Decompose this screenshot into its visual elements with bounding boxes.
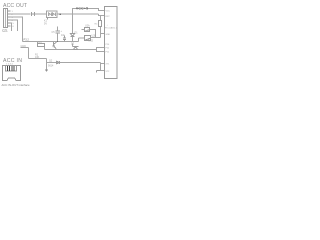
svg-text:U2A: U2A <box>85 25 90 28</box>
svg-text:P0.0/AD0.0: P0.0/AD0.0 <box>105 27 118 30</box>
relay K1 box <box>47 11 58 18</box>
mid rail link to U2B <box>79 38 85 42</box>
crystal Y1 <box>97 71 101 73</box>
junction node A <box>59 13 61 15</box>
wire U2A input stub <box>82 29 85 31</box>
wire rail into U1 pins <box>97 48 105 52</box>
mid rail wire left <box>23 41 79 43</box>
wire pin4 stub down <box>11 20 18 31</box>
diode D2 on rail <box>73 47 79 50</box>
resistor R4 vertical <box>100 16 102 38</box>
svg-text:GND: GND <box>106 34 111 36</box>
svg-text:U2B: U2B <box>92 35 97 38</box>
junction cap to rail <box>57 41 58 42</box>
long rail wire <box>38 42 97 50</box>
wire branch up to VCC rail <box>73 9 105 15</box>
link D1 to rail <box>72 44 74 47</box>
connector J1 pin stubs <box>8 11 11 26</box>
wire relay output <box>58 13 99 15</box>
svg-text:CZ1: CZ1 <box>2 29 8 33</box>
buffer U2A <box>85 28 90 32</box>
wire U2A output <box>90 30 96 38</box>
wire jog down to long rail <box>28 48 30 59</box>
RJ jack J2 body <box>3 66 21 81</box>
transistor Q2 emitter to ground <box>46 63 48 70</box>
resistor R4 body <box>99 21 102 27</box>
relay K1 internal diodes <box>49 13 56 16</box>
svg-text:GND: GND <box>21 45 27 48</box>
capacitor C6 <box>63 36 66 42</box>
wire crystal to U1 XTAL pins <box>101 63 105 71</box>
IC U1 box <box>105 7 118 79</box>
transistor Q1 <box>54 42 57 50</box>
pin numbers J1 <box>12 11 15 28</box>
capacitor C5 vertical wire <box>57 27 59 42</box>
ground arrow <box>45 70 48 73</box>
connector J1 body <box>4 9 8 28</box>
RJ jack pin bars <box>7 66 14 71</box>
GND stub wire <box>21 47 29 49</box>
svg-text:5V: 5V <box>44 23 47 26</box>
wire crystal net <box>47 62 101 64</box>
diode D3 in rail jog <box>38 44 45 47</box>
wire base junction <box>46 59 48 63</box>
diode D1 symbol <box>71 34 75 37</box>
RJ jack pin block <box>6 66 17 72</box>
wire stub into U1 GND pin <box>101 33 105 35</box>
wire net VCC from pin2 to fuse <box>11 13 31 15</box>
wire U2B output to U1 <box>91 37 101 39</box>
svg-text:P3.2: P3.2 <box>24 37 30 41</box>
svg-text:RXD: RXD <box>88 40 93 43</box>
capacitor C5 plates <box>56 31 61 33</box>
wire net from pin3 down to mid rail <box>11 17 23 42</box>
IC U1 pin labels <box>105 11 118 74</box>
background <box>0 0 120 90</box>
svg-text:10u: 10u <box>61 34 66 37</box>
diode D1 vertical wire <box>72 14 74 42</box>
svg-text:VCC: VCC <box>106 11 111 13</box>
wire ACC IN signal <box>29 58 47 60</box>
svg-text:9014: 9014 <box>48 65 54 68</box>
wire pin6 stub down <box>11 23 12 31</box>
wire fuse to relay K1 <box>35 13 47 15</box>
diode D4 <box>57 61 60 64</box>
svg-text:ACC IN-OUT interface: ACC IN-OUT interface <box>2 83 30 87</box>
svg-text:ACC OUT: ACC OUT <box>3 3 28 9</box>
wire jog into U1 pin RST <box>99 14 105 16</box>
fuse F1 <box>32 12 35 16</box>
buffer U2B <box>85 36 91 41</box>
svg-text:VCC+5: VCC+5 <box>76 6 88 10</box>
svg-text:RST: RST <box>106 16 111 18</box>
svg-text:10K: 10K <box>35 56 40 59</box>
